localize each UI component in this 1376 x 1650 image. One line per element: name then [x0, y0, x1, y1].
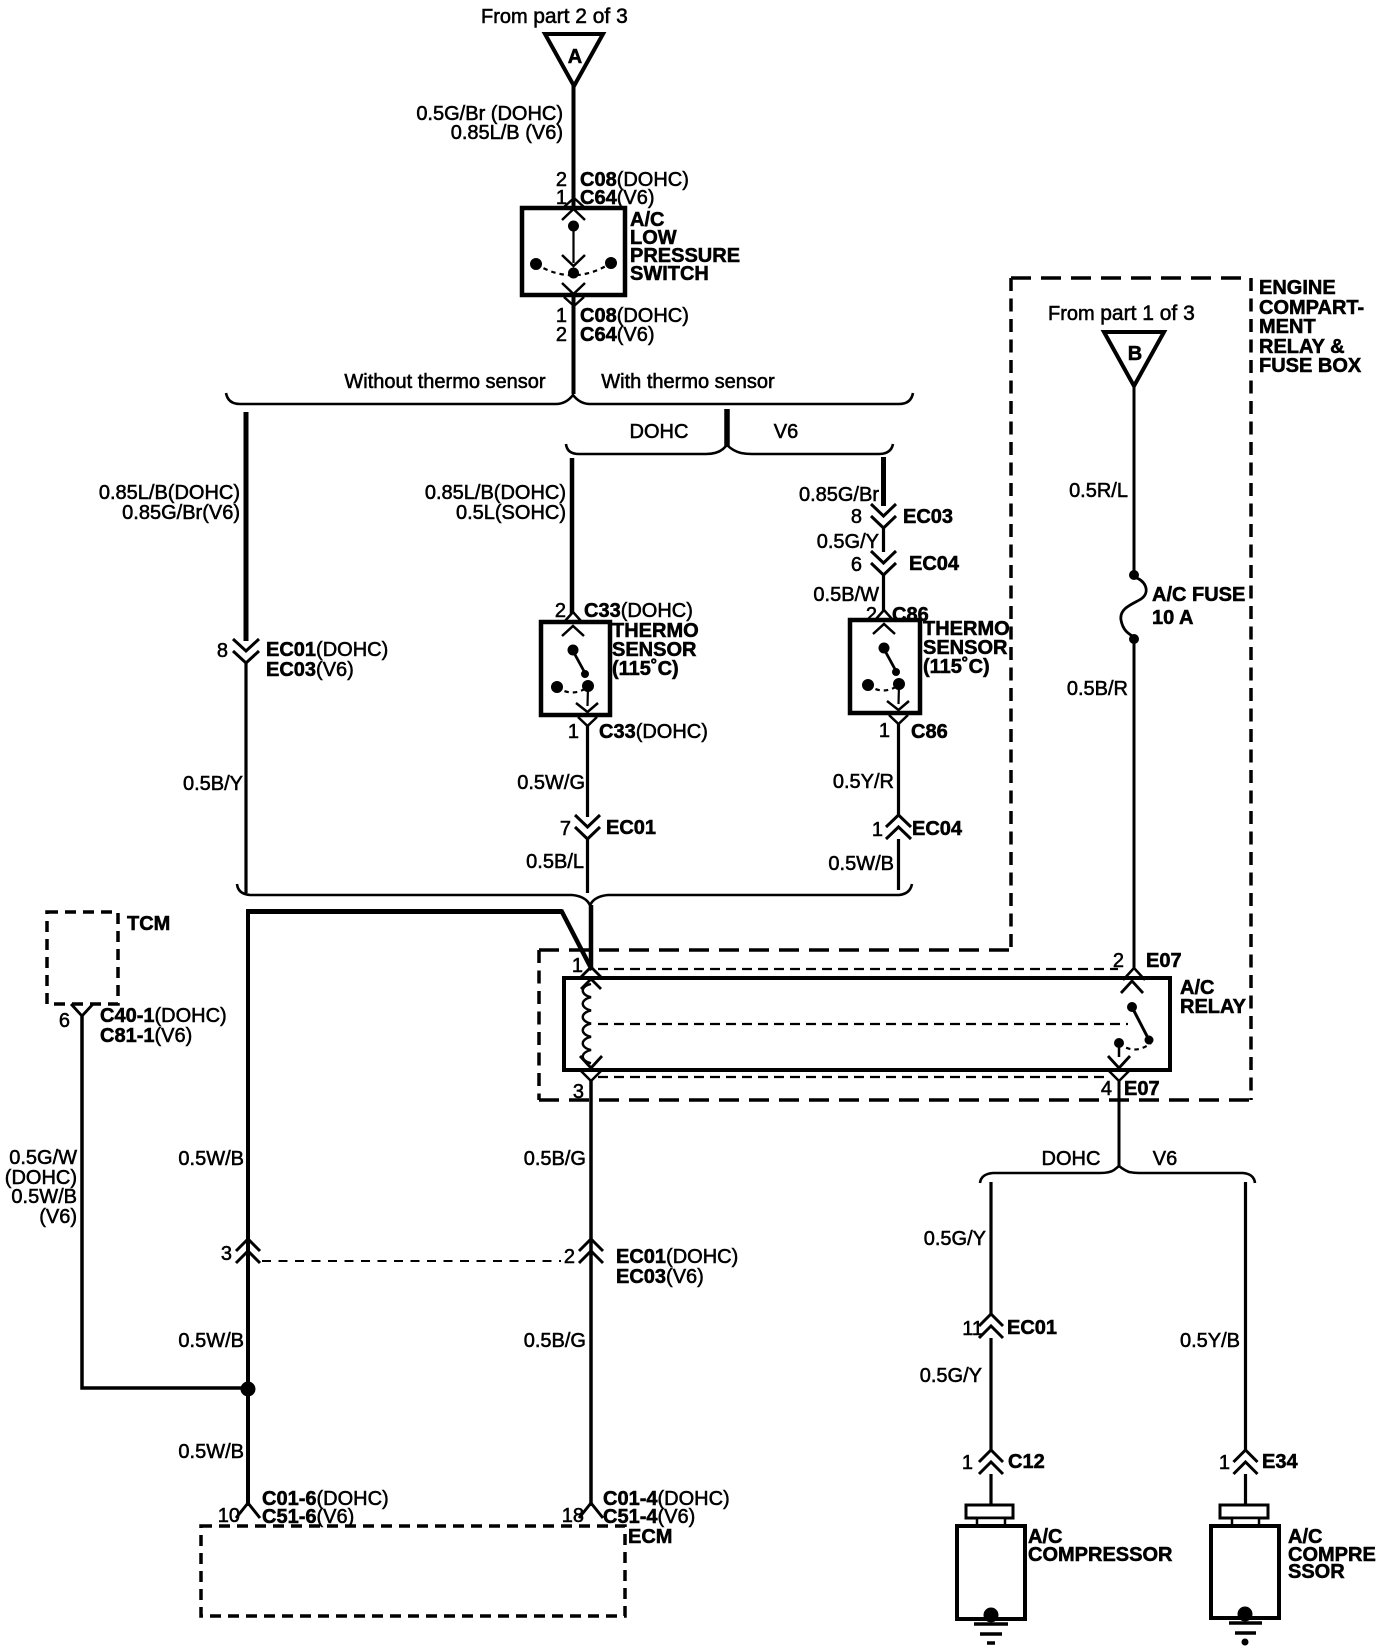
junction dot TCM wire joins 0.5W/B wire — [241, 1382, 255, 1396]
svg-text:C33(DOHC): C33(DOHC) — [599, 721, 708, 743]
pin 6 of TCM — [59, 1004, 227, 1047]
thermo switch contacts (DOHC) — [552, 645, 599, 712]
svg-text:1: 1 — [572, 955, 583, 977]
wire 0.5G/Y lower DOHC branch — [920, 1338, 991, 1450]
svg-text:C81-1(V6): C81-1(V6) — [100, 1025, 192, 1047]
connector 2 EC01(DOHC)/EC03(V6) inline — [564, 1239, 738, 1288]
svg-text:4: 4 — [1101, 1078, 1112, 1100]
pin connector top of V6 thermo sensor — [873, 610, 895, 634]
pin connector top of DOHC thermo sensor — [562, 612, 584, 636]
node A: from part 2 of 3 label — [481, 5, 628, 28]
wire 0.5Y/B V6 compressor branch — [1180, 1182, 1246, 1450]
A/C RELAY label — [1180, 977, 1247, 1018]
svg-text:RELAY: RELAY — [1180, 996, 1247, 1018]
svg-text:2: 2 — [555, 600, 566, 622]
svg-text:0.85L/B(DOHC): 0.85L/B(DOHC) — [99, 482, 240, 504]
svg-text:SWITCH: SWITCH — [630, 263, 709, 285]
TCM box — [47, 912, 170, 1004]
svg-text:COMPRESSOR: COMPRESSOR — [1028, 1544, 1173, 1566]
THERMO SENSOR (115C) label V6 — [923, 618, 1010, 678]
svg-text:EC03: EC03 — [903, 506, 953, 528]
svg-text:(V6): (V6) — [39, 1206, 77, 1228]
svg-text:1: 1 — [962, 1452, 973, 1474]
svg-text:0.5W/B: 0.5W/B — [178, 1330, 244, 1352]
value label 0.5W/B upper — [178, 1148, 244, 1170]
fuse A/C FUSE 10A — [1121, 571, 1146, 644]
svg-text:EC04: EC04 — [909, 553, 960, 575]
wire 0.5G/Br(DOHC) / 0.85L/B(V6) from A to switch — [572, 85, 576, 208]
A/C compressor (V6) — [1211, 1505, 1279, 1621]
svg-text:EC04: EC04 — [912, 818, 963, 840]
svg-text:10 A: 10 A — [1152, 607, 1194, 629]
svg-text:6: 6 — [851, 554, 862, 576]
ENGINE COMPARTMENT RELAY & FUSE BOX label — [1259, 277, 1364, 377]
svg-text:TCM: TCM — [127, 913, 170, 935]
pin 1 of relay — [572, 955, 603, 989]
svg-text:0.5B/G: 0.5B/G — [524, 1148, 586, 1170]
THERMO SENSOR (115C) label DOHC — [612, 620, 699, 680]
svg-text:C86: C86 — [911, 721, 948, 743]
value label 0.5G/W (DOHC) 0.5W/B (V6) — [5, 1147, 77, 1228]
svg-text:V6: V6 — [774, 421, 798, 443]
svg-text:EC03(V6): EC03(V6) — [616, 1266, 704, 1288]
pin connector bottom of V6 thermo sensor — [889, 715, 908, 724]
svg-text:Without thermo sensor: Without thermo sensor — [344, 371, 546, 393]
svg-text:(115˚C): (115˚C) — [612, 657, 679, 680]
svg-text:FUSE BOX: FUSE BOX — [1259, 355, 1362, 377]
svg-text:0.85L/B(DOHC): 0.85L/B(DOHC) — [425, 482, 566, 504]
node label DOHC (compressor branch) — [1042, 1148, 1101, 1170]
svg-text:0.5L(SOHC): 0.5L(SOHC) — [456, 502, 566, 524]
svg-text:C40-1(DOHC): C40-1(DOHC) — [100, 1005, 227, 1027]
A/C low pressure switch S1 box — [522, 208, 625, 295]
svg-text:0.5G/Y: 0.5G/Y — [924, 1228, 986, 1250]
relay coil — [583, 984, 591, 1063]
A/C COMPRESSOR label (DOHC) — [1028, 1526, 1173, 1566]
svg-text:C33(DOHC): C33(DOHC) — [584, 600, 693, 622]
wire 0.5W/B left vertical run to ECM pin 10 — [246, 909, 250, 1506]
connector 7 EC01 on DOHC branch — [560, 815, 656, 840]
svg-text:B: B — [1128, 343, 1142, 365]
svg-text:C64(V6): C64(V6) — [580, 187, 655, 209]
svg-text:8: 8 — [217, 640, 228, 662]
svg-text:From part 1 of 3: From part 1 of 3 — [1048, 302, 1195, 325]
svg-text:1: 1 — [568, 721, 579, 743]
wire 0.5B/W V6 branch — [813, 575, 883, 612]
svg-text:EC03(V6): EC03(V6) — [266, 659, 354, 681]
A/C relay inner dashed lines — [598, 969, 1128, 1077]
svg-text:0.5Y/R: 0.5Y/R — [833, 771, 894, 793]
pin 1 C08(DOHC) / 2 C64(V6) labels below switch — [556, 305, 689, 346]
svg-text:C12: C12 — [1008, 1451, 1045, 1473]
connector 1 EC04 on V6 branch lower — [872, 815, 963, 841]
pin 3 of relay — [573, 1056, 602, 1103]
thermo switch contacts (V6) — [863, 643, 910, 710]
node label: With thermo sensor — [601, 371, 775, 393]
svg-text:0.5W/B: 0.5W/B — [11, 1186, 77, 1208]
relay switch contacts — [1115, 1003, 1154, 1058]
svg-text:0.5W/B: 0.5W/B — [828, 853, 894, 875]
svg-text:1: 1 — [872, 819, 883, 841]
svg-text:8: 8 — [851, 506, 862, 528]
svg-text:DOHC: DOHC — [630, 421, 689, 443]
wire 0.5G/W(DOHC)/0.5W/B(V6) from TCM to junction — [82, 1016, 246, 1388]
svg-text:EC01(DOHC): EC01(DOHC) — [266, 639, 388, 661]
node B: from part 1 of 3 label — [1048, 302, 1195, 325]
wire from brace merge to relay pin 1 — [589, 905, 594, 970]
svg-text:E07: E07 — [1146, 950, 1182, 972]
pin 2 C08(DOHC) / 1 C64(V6) labels above switch — [556, 169, 689, 209]
svg-text:MENT: MENT — [1259, 316, 1316, 338]
brace split DOHC/V6 (compressors) — [980, 1166, 1255, 1183]
wire 0.85G/Br V6 branch — [799, 457, 884, 506]
node label V6 — [774, 421, 798, 443]
svg-text:0.5B/W: 0.5B/W — [813, 584, 879, 606]
wire 0.5B/R from fuse to relay pin 2 — [1067, 641, 1134, 968]
pin connector bottom of switch — [564, 297, 584, 306]
svg-text:11: 11 — [962, 1318, 983, 1340]
svg-text:EC01: EC01 — [606, 817, 656, 839]
pin 2 C33(DOHC) label — [555, 600, 693, 622]
wire 0.5B/L to bottom brace — [526, 839, 587, 893]
svg-text:0.85L/B (V6): 0.85L/B (V6) — [451, 122, 563, 144]
brace split (without/with thermo sensor) — [226, 393, 913, 404]
wire junction: horizontal feed to left branch and relay — [248, 910, 592, 970]
svg-text:EC01: EC01 — [1007, 1317, 1057, 1339]
connector 1 E34 — [1219, 1450, 1299, 1474]
svg-text:0.5G/Y: 0.5G/Y — [817, 531, 879, 553]
svg-text:3: 3 — [573, 1081, 584, 1103]
svg-text:10: 10 — [218, 1505, 240, 1527]
pin 1 C86 label — [879, 720, 948, 743]
svg-text:0.5W/B: 0.5W/B — [178, 1148, 244, 1170]
svg-text:0.5B/Y: 0.5B/Y — [183, 773, 243, 795]
pin 2 C86 label — [866, 604, 929, 626]
wire from switch down to split brace — [572, 295, 576, 394]
svg-text:(115˚C): (115˚C) — [923, 655, 990, 678]
svg-text:7: 7 — [560, 818, 571, 840]
wire from relay pin 4 to DOHC/V6 brace — [1118, 1081, 1121, 1167]
connector 3 (inline, dashed link) — [221, 1239, 260, 1265]
connector 1 C12 — [962, 1450, 1045, 1474]
svg-text:0.5B/G: 0.5B/G — [524, 1330, 586, 1352]
value label 0.5W/B lower — [178, 1441, 244, 1463]
wire 0.5W/G below DOHC sensor — [517, 726, 587, 817]
node label V6 (compressor branch) — [1153, 1148, 1177, 1170]
svg-text:A: A — [568, 46, 582, 68]
switch contacts inside A/C low pressure switch — [531, 221, 617, 294]
svg-text:0.5G/Y: 0.5G/Y — [920, 1365, 982, 1387]
svg-text:ECM: ECM — [628, 1526, 672, 1548]
svg-text:0.5G/W: 0.5G/W — [9, 1147, 77, 1169]
connector 8 EC01(DOHC)/EC03(V6) on left branch — [217, 639, 388, 681]
svg-text:1: 1 — [1219, 1452, 1230, 1474]
dashed link wire between connectors 3 and 2 — [262, 1260, 561, 1262]
A/C COMPRESSOR label (V6) — [1288, 1526, 1376, 1583]
wire 0.5B/Y left branch lower — [183, 663, 246, 893]
svg-text:With thermo sensor: With thermo sensor — [601, 371, 775, 393]
svg-text:0.5R/L: 0.5R/L — [1069, 480, 1128, 502]
pin 4 of relay — [1101, 1056, 1160, 1100]
wire 0.5Y/R below V6 sensor — [833, 724, 899, 816]
svg-text:SSOR: SSOR — [1288, 1561, 1345, 1583]
value label 0.5W/B mid — [178, 1330, 244, 1352]
A/C FUSE 10 A label — [1152, 584, 1245, 629]
connector 8 EC03 on V6 branch — [851, 504, 953, 528]
A/C relay box — [564, 978, 1170, 1070]
svg-text:0.85G/Br(V6): 0.85G/Br(V6) — [122, 502, 240, 524]
wire 0.5B/G from relay pin 3 to ECM pin 18 — [524, 1081, 591, 1506]
svg-text:0.5B/L: 0.5B/L — [526, 851, 584, 873]
pin connector top of switch — [562, 198, 585, 220]
svg-text:DOHC: DOHC — [1042, 1148, 1101, 1170]
thermo sensor (V6) box — [850, 620, 920, 713]
svg-text:0.5W/B: 0.5W/B — [178, 1441, 244, 1463]
wire 0.5G/Y DOHC compressor branch — [924, 1182, 991, 1314]
svg-text:E07: E07 — [1124, 1078, 1160, 1100]
brace merge (bottom of thermo section) — [237, 884, 912, 905]
svg-text:ENGINE: ENGINE — [1259, 277, 1336, 299]
wire 0.5W/B to bottom brace V6 — [828, 839, 898, 890]
svg-text:0.85G/Br: 0.85G/Br — [799, 484, 879, 506]
A/C LOW PRESSURE SWITCH label — [630, 209, 740, 285]
A/C compressor (DOHC) — [957, 1505, 1025, 1622]
svg-text:EC01(DOHC): EC01(DOHC) — [616, 1246, 738, 1268]
svg-text:2: 2 — [564, 1246, 575, 1268]
svg-text:2: 2 — [556, 324, 567, 346]
pin 1 C33(DOHC) label — [568, 721, 708, 743]
connector A (triangle, from part 2 of 3) — [545, 34, 603, 86]
wire 0.5G/Y V6 branch — [817, 528, 884, 553]
pin 2 connector marks inside relay — [1121, 968, 1145, 993]
svg-text:From part 2 of 3: From part 2 of 3 — [481, 5, 628, 28]
stub wire to DOHC/V6 brace — [724, 409, 730, 447]
svg-text:0.5W/G: 0.5W/G — [517, 772, 585, 794]
svg-text:C64(V6): C64(V6) — [580, 324, 655, 346]
node label DOHC — [630, 421, 689, 443]
pin 10 C01-6(DOHC)/C51-6(V6) of ECM — [218, 1488, 389, 1528]
brace split DOHC/V6 (thermo sensor) — [566, 444, 893, 454]
connector B (triangle, from part 1 of 3) — [1104, 332, 1164, 386]
connector 11 EC01 — [962, 1314, 1057, 1340]
svg-text:V6: V6 — [1153, 1148, 1177, 1170]
svg-text:A/C FUSE: A/C FUSE — [1152, 584, 1245, 606]
value label 0.5G/Br (DOHC) / 0.85L/B (V6) — [416, 103, 563, 144]
wire 0.85L/B(DOHC)/0.85G/Br(V6), left branch — [244, 412, 249, 641]
engine compartment relay &amp; fuse box dashed outline — [539, 278, 1251, 1100]
ground (V6 compressor) — [1229, 1623, 1262, 1645]
node label: Without thermo sensor — [344, 371, 546, 393]
ECM box — [201, 1526, 672, 1616]
svg-text:6: 6 — [59, 1010, 70, 1032]
wire to V6 compressor — [1244, 1474, 1247, 1506]
value label 0.85L/B(DOHC) / 0.85G/Br(V6) — [99, 482, 240, 524]
svg-text:3: 3 — [221, 1243, 232, 1265]
pin 2 E07 label — [1113, 950, 1182, 972]
connector 6 EC04 on V6 branch — [851, 551, 960, 576]
wire 0.5R/L from B to fuse — [1069, 385, 1134, 576]
svg-text:1: 1 — [879, 720, 890, 742]
pin 18 C01-4(DOHC)/C51-4(V6) of ECM — [562, 1488, 730, 1528]
thermo sensor (DOHC) box — [541, 622, 610, 715]
svg-text:18: 18 — [562, 1505, 584, 1527]
ground (DOHC compressor) — [974, 1624, 1008, 1643]
wire to DOHC compressor — [989, 1474, 992, 1506]
svg-text:E34: E34 — [1262, 1451, 1298, 1473]
pin connector bottom of DOHC thermo sensor — [578, 717, 597, 726]
svg-text:0.5Y/B: 0.5Y/B — [1180, 1330, 1240, 1352]
wire 0.85L/B(DOHC) to DOHC thermo sensor — [570, 458, 575, 614]
svg-text:0.5B/R: 0.5B/R — [1067, 678, 1128, 700]
value label 0.85L/B(DOHC) / 0.5L(SOHC) — [425, 482, 566, 524]
